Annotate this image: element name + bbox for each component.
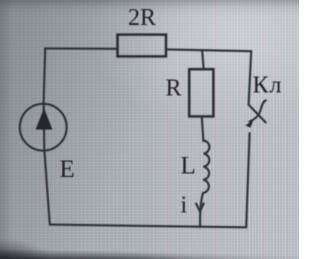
wire right lower [246, 133, 249, 227]
resistor R [189, 69, 213, 116]
wire bottom [50, 225, 246, 228]
current source E circle [20, 104, 67, 151]
svg-text:L: L [181, 153, 196, 180]
current arrow i head [196, 203, 204, 211]
switch Kl arrow curve [250, 100, 266, 121]
svg-text:Кл: Кл [253, 73, 283, 99]
wire right upper [249, 51, 252, 104]
svg-text:R: R [166, 76, 182, 102]
wire L to bottom [200, 193, 203, 227]
wire top-left segment [45, 47, 117, 49]
switch Kl arrowhead [245, 120, 253, 128]
svg-text:2R: 2R [128, 5, 156, 31]
resistor 2R [118, 35, 167, 57]
svg-text:i: i [181, 193, 188, 219]
wire left upper [44, 48, 46, 103]
current source arrowhead [36, 108, 53, 130]
wire R to L [202, 117, 204, 141]
wire top-right segment [166, 49, 251, 51]
node junction top [202, 51, 204, 69]
wire left lower [44, 151, 49, 225]
inductor L coil [203, 141, 209, 193]
current source arrow shaft [43, 105, 46, 151]
switch Kl blade [249, 105, 266, 123]
svg-text:E: E [60, 156, 75, 183]
